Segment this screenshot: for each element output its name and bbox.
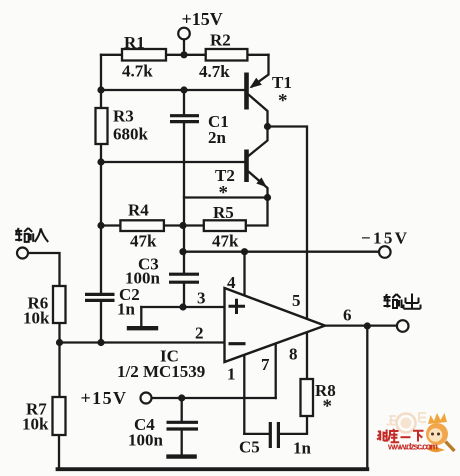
capacitor C2 <box>85 294 115 300</box>
wire R4 rail <box>101 224 204 226</box>
node dot C4 top <box>178 394 185 401</box>
svg-text:R5: R5 <box>213 203 234 222</box>
wire T1 base rail <box>101 89 245 91</box>
wire T2 base rail <box>101 161 245 163</box>
resistor R8 <box>301 379 314 416</box>
svg-text:680k: 680k <box>113 125 149 144</box>
node dot pin4 <box>241 248 248 255</box>
capacitor C4 <box>167 422 199 429</box>
svg-text:1/2 MC1539: 1/2 MC1539 <box>117 362 205 381</box>
resistor R3 <box>96 108 108 144</box>
wire pin4 <box>243 252 245 297</box>
capacitor C3 <box>169 274 199 282</box>
wire +15V stem <box>183 40 185 55</box>
node dot C2 bottom <box>97 339 104 346</box>
resistor R4 <box>120 220 163 231</box>
op-amp plus input symbol <box>229 299 246 314</box>
node dot pin3/C3 <box>179 303 186 310</box>
wire pin3 line <box>141 306 225 308</box>
op-amp U1 1/2 MC1539 <box>225 288 326 362</box>
node dot T2 base rail left <box>97 158 104 165</box>
resistor R2 <box>206 49 248 61</box>
op-amp minus input symbol <box>229 342 246 345</box>
label shuru (input) chinese <box>15 228 48 242</box>
wire bottom feedback rail <box>58 467 368 471</box>
svg-text:*: * <box>323 396 333 417</box>
wire C4 top lead <box>181 398 183 421</box>
node dot C1 top <box>180 86 187 93</box>
wire -15V rail <box>183 251 379 253</box>
node dot output <box>364 322 371 329</box>
svg-text:4.7k: 4.7k <box>199 62 230 81</box>
wire pin5 branch <box>268 127 308 380</box>
svg-text:1n: 1n <box>117 300 136 319</box>
node dot R4 rail left <box>97 222 104 229</box>
capacitor C1 <box>170 116 199 122</box>
svg-text:5: 5 <box>292 291 301 310</box>
wire pin7 <box>275 344 277 399</box>
terminal -15V <box>379 246 391 258</box>
ground at pin3 <box>127 326 158 330</box>
resistor R6 <box>53 286 66 323</box>
wire C5 right lead <box>280 416 308 434</box>
resistor R5 <box>204 220 246 231</box>
label shuchu (output) chinese <box>384 294 421 309</box>
node dot T2 emitter <box>264 194 271 201</box>
svg-text:*: * <box>278 91 288 112</box>
svg-text:−15V: −15V <box>361 229 408 248</box>
svg-text:C5: C5 <box>239 438 260 457</box>
wire C3 bottom lead <box>183 284 185 308</box>
watermark red text weiku yixia <box>377 429 424 443</box>
wire left rail <box>100 55 102 293</box>
svg-text:8: 8 <box>289 345 298 364</box>
terminal +15V bottom <box>141 393 152 404</box>
svg-text:100n: 100n <box>128 431 164 450</box>
svg-text:10k: 10k <box>23 309 50 328</box>
node dot -15V rail left <box>179 248 186 255</box>
wire C4 bottom lead <box>181 430 183 455</box>
wire R7 bottom lead <box>58 435 60 469</box>
wire pin3 ground stem <box>140 307 142 326</box>
svg-text:47k: 47k <box>212 232 239 251</box>
svg-text:1n: 1n <box>293 439 312 458</box>
svg-text:4.7k: 4.7k <box>122 62 153 81</box>
wire +15V bottom rail <box>152 397 276 399</box>
svg-text:2: 2 <box>195 324 204 343</box>
node dot base rail left <box>97 86 104 93</box>
capacitor C5 <box>270 422 278 448</box>
node dot R4 rail mid <box>179 222 186 229</box>
ground at C4 <box>166 454 197 458</box>
wire T2 emitter lead <box>249 172 268 198</box>
transistor Q T2 <box>247 150 267 188</box>
wire R7 top lead <box>58 343 60 398</box>
svg-text:T1: T1 <box>272 73 292 92</box>
svg-text:3: 3 <box>197 289 206 308</box>
svg-text:10k: 10k <box>22 415 49 434</box>
node dot top rail/+15V <box>180 51 187 58</box>
watermark faded emblem <box>387 413 427 433</box>
wire output feedback vertical <box>366 326 368 469</box>
wire pin2 line <box>60 323 226 343</box>
svg-text:+15V: +15V <box>81 388 127 408</box>
wire input lead <box>28 253 59 286</box>
svg-text:www.dzsc.com: www.dzsc.com <box>387 442 438 452</box>
wire T1 collector lead <box>249 95 268 156</box>
svg-text:4: 4 <box>227 273 236 292</box>
svg-text:6: 6 <box>343 306 352 325</box>
wire pin1 <box>243 355 245 434</box>
svg-text:*: * <box>219 183 229 204</box>
wire T1 emitter lead <box>252 55 269 87</box>
svg-text:1: 1 <box>227 365 236 384</box>
wire C5 left lead <box>244 433 269 435</box>
svg-text:2n: 2n <box>208 128 227 147</box>
transistor Q T1 <box>247 73 262 110</box>
resistor R7 <box>53 397 66 435</box>
wire T2 emitter branch <box>184 196 268 198</box>
svg-text:R3: R3 <box>113 107 134 126</box>
node dot inverting input <box>56 339 63 346</box>
svg-text:R2: R2 <box>210 31 231 50</box>
terminal output <box>397 320 409 332</box>
wire C1 top lead <box>183 90 185 115</box>
svg-text:R1: R1 <box>124 33 145 52</box>
wire output lead <box>325 324 397 326</box>
svg-text:7: 7 <box>261 355 270 374</box>
wire C1 bottom chain <box>183 123 185 274</box>
svg-text:R4: R4 <box>128 201 149 220</box>
node dot T1 collector <box>264 123 271 130</box>
svg-text:47k: 47k <box>130 232 157 251</box>
terminal input <box>17 248 28 259</box>
wire C2 bottom lead <box>100 302 102 343</box>
watermark mascot <box>426 413 455 452</box>
resistor R1 <box>122 49 166 61</box>
wire top rail <box>101 54 269 56</box>
wire R5 right to emitter node <box>246 198 268 226</box>
svg-text:+15V: +15V <box>182 9 223 29</box>
watermark weiku logo <box>377 413 455 452</box>
terminal +15V top <box>178 28 190 40</box>
